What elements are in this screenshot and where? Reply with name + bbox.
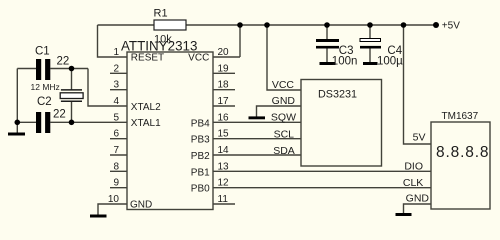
svg-text:22: 22 bbox=[53, 109, 66, 121]
svg-text:20: 20 bbox=[218, 47, 230, 58]
svg-text:GND: GND bbox=[130, 199, 152, 210]
svg-text:1: 1 bbox=[113, 47, 119, 58]
svg-text:TM1637: TM1637 bbox=[442, 111, 479, 122]
svg-text:15: 15 bbox=[218, 129, 230, 140]
svg-text:+5V: +5V bbox=[442, 21, 460, 32]
svg-text:RESET: RESET bbox=[131, 53, 164, 64]
svg-text:19: 19 bbox=[218, 63, 230, 74]
svg-text:GND: GND bbox=[406, 193, 430, 205]
svg-text:C2: C2 bbox=[37, 96, 52, 108]
svg-text:14: 14 bbox=[218, 145, 230, 156]
svg-text:22: 22 bbox=[57, 55, 70, 67]
svg-text:17: 17 bbox=[218, 96, 230, 107]
svg-text:SCL: SCL bbox=[274, 129, 295, 141]
svg-text:8.8.8.8: 8.8.8.8 bbox=[436, 144, 489, 161]
svg-text:VCC: VCC bbox=[272, 79, 295, 91]
svg-text:CLK: CLK bbox=[403, 177, 423, 189]
svg-text:VCC: VCC bbox=[188, 53, 209, 64]
svg-text:9: 9 bbox=[113, 178, 119, 189]
svg-text:11: 11 bbox=[218, 194, 229, 205]
svg-text:13: 13 bbox=[218, 161, 230, 172]
svg-text:C1: C1 bbox=[35, 45, 50, 57]
svg-text:7: 7 bbox=[113, 145, 119, 156]
svg-text:DS3231: DS3231 bbox=[318, 89, 357, 101]
svg-text:GND: GND bbox=[272, 95, 296, 107]
svg-text:SDA: SDA bbox=[273, 145, 295, 157]
svg-text:10: 10 bbox=[108, 194, 120, 205]
svg-text:PB0: PB0 bbox=[191, 184, 210, 195]
svg-text:PB1: PB1 bbox=[191, 167, 210, 178]
svg-text:100n: 100n bbox=[332, 56, 358, 68]
svg-text:R1: R1 bbox=[154, 8, 168, 20]
svg-text:ATTINY2313: ATTINY2313 bbox=[121, 38, 197, 53]
svg-text:8: 8 bbox=[113, 161, 119, 172]
svg-text:12 MHz: 12 MHz bbox=[31, 82, 60, 92]
svg-text:12: 12 bbox=[218, 178, 230, 189]
svg-text:5V: 5V bbox=[413, 132, 426, 144]
svg-text:SQW: SQW bbox=[271, 112, 296, 124]
svg-text:2: 2 bbox=[113, 63, 119, 74]
svg-text:4: 4 bbox=[113, 96, 119, 107]
svg-text:PB3: PB3 bbox=[191, 135, 210, 146]
svg-text:16: 16 bbox=[218, 112, 230, 123]
svg-text:DIO: DIO bbox=[404, 161, 423, 173]
svg-text:PB4: PB4 bbox=[191, 118, 210, 129]
svg-text:5: 5 bbox=[113, 112, 119, 123]
svg-text:18: 18 bbox=[218, 80, 230, 91]
svg-text:PB2: PB2 bbox=[191, 151, 210, 162]
svg-text:3: 3 bbox=[113, 80, 119, 91]
svg-text:XTAL2: XTAL2 bbox=[131, 102, 161, 113]
svg-text:100µ: 100µ bbox=[377, 56, 403, 68]
svg-text:6: 6 bbox=[113, 129, 119, 140]
svg-text:XTAL1: XTAL1 bbox=[131, 118, 161, 129]
